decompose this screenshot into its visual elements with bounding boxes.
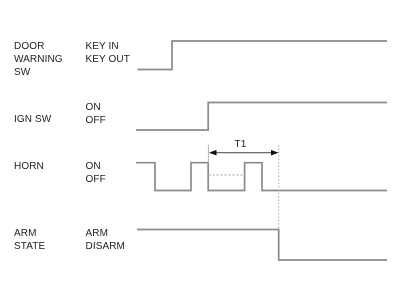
state labels ON / OFF (IGN SW) [86,101,106,127]
wire: ARM STATE waveform (ARM high, fall at 278.7, DISARM low) [137,230,387,261]
dotted horizontal reference line (HORN mid-level between pulses) [209,174,244,176]
dimension extension line left (above HORN pulse edge) [207,145,209,164]
signal name DOOR WARNING SW [14,40,63,79]
wire: DOOR WARNING SW waveform (KEY OUT low, rise, KEY IN high) [138,41,388,70]
dotted vertical reference line at end of T1 down to ARM STATE edge [278,145,280,229]
state labels ARM / DISARM [86,227,126,253]
label T1 [235,138,247,151]
dimension arrowhead left [209,150,217,156]
signal name HORN [14,160,44,173]
wire: HORN waveform (three ON pulses then OFF) [136,163,387,191]
dimension arrowhead right [271,150,279,156]
signal name ARM STATE [14,227,45,253]
signal name IGN SW [14,113,51,126]
wire: IGN SW waveform (OFF low, rise at 208, ON high) [136,103,387,131]
state labels KEY IN / KEY OUT [86,40,130,66]
state labels ON / OFF (HORN) [86,160,106,186]
dimension line T1 shaft [212,152,275,154]
